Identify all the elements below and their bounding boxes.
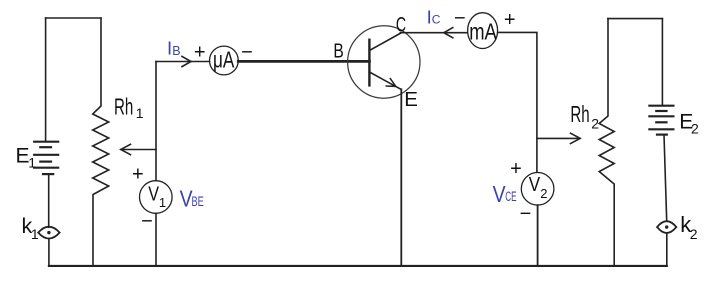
svg-text:2: 2 [691, 121, 699, 137]
svg-text:1: 1 [159, 195, 166, 210]
svg-text:+: + [132, 163, 144, 185]
key k1 [38, 227, 59, 239]
Rh1 wiper arrow [121, 144, 156, 154]
voltmeter V1 [140, 181, 173, 214]
minus uA [241, 42, 253, 64]
Rh2 wiper arrow [537, 133, 580, 143]
plus uA [194, 41, 206, 63]
plus V2 [510, 158, 522, 180]
wire IB horizontal [156, 61, 210, 63]
wire C to mA [400, 32, 467, 34]
svg-text:V: V [493, 181, 507, 207]
svg-text:B: B [333, 40, 343, 63]
svg-text:+: + [194, 41, 206, 63]
svg-text:−: − [141, 211, 153, 233]
label k1 [22, 214, 39, 242]
voltmeter V2 [521, 173, 554, 206]
wire V1 column [155, 62, 157, 266]
svg-text:1: 1 [136, 105, 144, 121]
label uA [213, 46, 235, 72]
svg-text:Rh: Rh [570, 101, 589, 127]
wire bottom rail [49, 265, 667, 267]
svg-text:V: V [529, 174, 541, 196]
svg-text:1: 1 [28, 155, 36, 171]
transistor emitter lead [369, 72, 401, 89]
minus mA [454, 7, 466, 29]
label VBE [180, 186, 204, 212]
ammeter mA [468, 13, 498, 49]
minus V1 [141, 211, 153, 233]
key k2 [657, 221, 676, 233]
svg-text:mA: mA [469, 18, 497, 44]
label k2 [680, 212, 698, 242]
svg-text:+: + [504, 9, 516, 31]
label Rh2 [570, 101, 599, 132]
battery E2 [649, 106, 673, 135]
svg-text:2: 2 [690, 226, 698, 242]
wire emitter column [400, 89, 402, 266]
wire E2 top lead [661, 19, 663, 106]
arrow IB [182, 56, 191, 66]
label B [333, 40, 343, 63]
transistor base bar [368, 40, 370, 86]
svg-text:1: 1 [31, 226, 39, 242]
label V2 [529, 174, 548, 201]
svg-text:B: B [172, 44, 180, 58]
resistor Rh2 (rheostat) [599, 19, 614, 266]
label E1 [16, 144, 37, 170]
wire E2 to k2 [664, 135, 667, 221]
emitter arrowhead [386, 79, 396, 87]
plus mA [504, 9, 516, 31]
label E2 [679, 111, 699, 137]
minus V2 [520, 203, 532, 225]
svg-text:C: C [432, 13, 441, 27]
svg-text:CE: CE [505, 189, 516, 204]
wire top-left horizontal [46, 17, 101, 19]
transistor collector lead [369, 33, 400, 50]
battery E1 [34, 142, 58, 174]
svg-text:E: E [404, 88, 418, 111]
resistor Rh1 (rheostat) [93, 18, 109, 266]
svg-text:−: − [454, 7, 466, 29]
wire top-right horizontal [608, 18, 663, 20]
svg-text:2: 2 [540, 186, 547, 201]
wire k1 to bottom [48, 239, 50, 266]
wire B thick [238, 60, 369, 63]
wire k2 to bottom [666, 234, 668, 266]
ammeter uA [210, 46, 239, 75]
svg-text:Rh: Rh [114, 93, 133, 119]
svg-text:+: + [510, 158, 522, 180]
wire below V2 [537, 205, 539, 266]
label Rh1 [114, 93, 144, 121]
label VCE [493, 181, 517, 207]
label mA [469, 18, 497, 44]
arrow IC [444, 28, 453, 38]
svg-text:−: − [520, 203, 532, 225]
wire mA to V2 column [498, 32, 537, 172]
label C [396, 14, 406, 37]
svg-text:2: 2 [591, 116, 599, 132]
transistor Q1 circle [348, 26, 420, 98]
svg-text:μA: μA [213, 46, 235, 72]
svg-text:BE: BE [192, 194, 204, 209]
wire E1 top lead [45, 18, 47, 142]
label E [404, 88, 418, 111]
label IC [427, 6, 441, 27]
wire E1 to k1 [48, 174, 50, 227]
plus V1 [132, 163, 144, 185]
label V1 [148, 184, 166, 210]
label IB [167, 38, 181, 59]
